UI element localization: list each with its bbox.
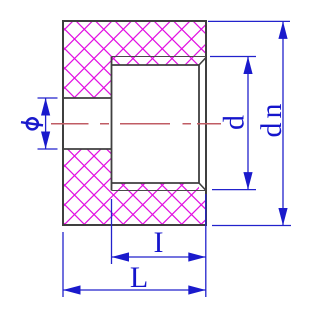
- phi arrow up: [41, 98, 50, 116]
- phi bottom extension line: [38, 148, 58, 150]
- outer body outline: [63, 21, 206, 225]
- L arrow left: [63, 285, 81, 294]
- d dimension line: [247, 57, 249, 190]
- small hole (white): [63, 98, 112, 149]
- L arrow right: [188, 285, 206, 294]
- chamfer bottom diagonal: [199, 183, 206, 191]
- L left extension line: [62, 232, 64, 297]
- phi top extension line: [38, 97, 58, 99]
- dn dimension line: [282, 21, 284, 225]
- bore bottom edge (minor dia): [112, 182, 200, 184]
- d bottom extension line: [212, 189, 256, 191]
- svg-text:dn: dn: [255, 100, 288, 138]
- I arrow left: [112, 252, 130, 261]
- chamfer strip (white): [199, 57, 206, 191]
- dn arrow down: [278, 208, 287, 226]
- svg-text:L: L: [130, 261, 148, 294]
- phi dimension line: [45, 98, 47, 149]
- dn top extension line: [208, 20, 290, 22]
- phi symbol: [21, 118, 43, 129]
- hatched body cross-section: [63, 21, 206, 225]
- dn bottom extension line: [212, 225, 291, 227]
- d top extension line: [210, 56, 256, 58]
- dn arrow up: [278, 21, 287, 39]
- centerline: [51, 123, 221, 125]
- thread major dia bottom (thin): [112, 190, 207, 192]
- d arrow down: [243, 172, 252, 190]
- phi arrow down: [41, 132, 50, 150]
- small hole top edge: [63, 97, 112, 99]
- d arrow up: [243, 57, 252, 75]
- bore top edge (minor dia): [112, 64, 200, 66]
- I/L right extension line: [205, 194, 207, 297]
- chamfer top diagonal: [199, 58, 206, 66]
- bore left face: [111, 57, 113, 191]
- I left extension line: [111, 199, 113, 264]
- chamfer inner edge: [198, 65, 200, 183]
- bore cavity (white): [112, 65, 207, 183]
- svg-text:d: d: [218, 115, 251, 130]
- small hole bottom edge: [63, 148, 112, 150]
- I dimension line: [112, 256, 206, 258]
- thread major dia top (thin): [112, 56, 207, 58]
- L dimension line: [63, 289, 206, 291]
- I arrow right: [188, 252, 206, 261]
- svg-text:I: I: [154, 226, 164, 259]
